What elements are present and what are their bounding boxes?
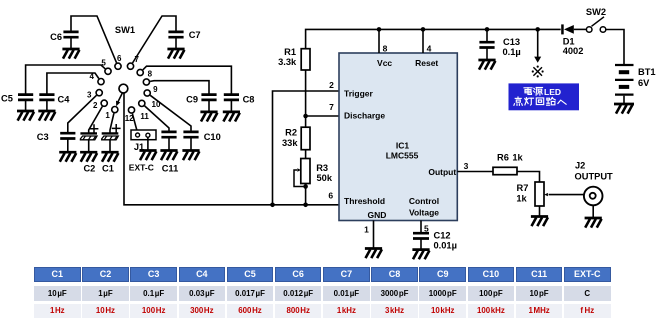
svg-text:C2: C2: [83, 164, 95, 174]
svg-text:3.3k: 3.3k: [278, 57, 297, 67]
svg-text:R3: R3: [316, 163, 328, 173]
svg-text:3: 3: [464, 161, 469, 171]
svg-text:1: 1: [105, 111, 110, 120]
svg-text:8: 8: [148, 70, 153, 79]
svg-text:Discharge: Discharge: [344, 110, 385, 120]
svg-text:IC1: IC1: [396, 141, 410, 151]
svg-text:1k: 1k: [516, 194, 527, 204]
svg-text:C5: C5: [1, 94, 13, 104]
svg-text:C9: C9: [186, 95, 198, 105]
svg-text:7: 7: [329, 102, 334, 112]
svg-text:9: 9: [153, 85, 158, 94]
svg-text:C13: C13: [503, 37, 520, 47]
svg-text:7: 7: [134, 55, 139, 64]
svg-text:C1: C1: [102, 164, 114, 174]
svg-text:C7: C7: [189, 30, 201, 40]
svg-text:LMC555: LMC555: [386, 151, 419, 161]
svg-text:C11: C11: [162, 164, 179, 174]
svg-text:R1: R1: [284, 47, 296, 57]
svg-text:6: 6: [117, 54, 122, 63]
svg-text:Trigger: Trigger: [344, 88, 374, 98]
svg-text:4002: 4002: [563, 46, 584, 56]
svg-text:6: 6: [328, 190, 333, 200]
svg-text:C4: C4: [58, 95, 71, 105]
svg-text:0.1µ: 0.1µ: [503, 47, 521, 57]
svg-text:Vcc: Vcc: [377, 58, 392, 68]
svg-text:3: 3: [87, 90, 92, 99]
svg-text:C12: C12: [434, 231, 451, 241]
svg-text:11: 11: [140, 112, 149, 121]
svg-text:1k: 1k: [512, 152, 523, 162]
svg-text:Threshold: Threshold: [344, 196, 385, 206]
svg-text:1: 1: [364, 225, 369, 235]
svg-text:BT1: BT1: [638, 67, 656, 77]
svg-text:2: 2: [329, 80, 334, 90]
svg-text:12: 12: [125, 114, 134, 123]
svg-text:2: 2: [93, 101, 98, 110]
svg-text:R7: R7: [517, 183, 529, 193]
svg-text:8: 8: [383, 43, 388, 53]
svg-text:6V: 6V: [638, 78, 650, 88]
svg-text:C8: C8: [243, 95, 255, 105]
svg-text:0.01µ: 0.01µ: [434, 241, 457, 251]
svg-text:R2: R2: [285, 127, 297, 137]
svg-text:J1: J1: [134, 142, 144, 152]
svg-text:50k: 50k: [317, 173, 333, 183]
svg-text:LED: LED: [544, 87, 561, 97]
svg-text:R6: R6: [497, 152, 509, 162]
svg-text:33k: 33k: [282, 138, 298, 148]
svg-text:D1: D1: [563, 37, 575, 47]
svg-text:EXT-C: EXT-C: [129, 163, 154, 173]
svg-text:C10: C10: [204, 132, 221, 142]
svg-text:4: 4: [89, 72, 94, 81]
svg-text:SW2: SW2: [586, 7, 606, 17]
svg-text:J2: J2: [575, 160, 585, 170]
svg-text:C6: C6: [50, 32, 62, 42]
svg-text:4: 4: [427, 43, 432, 53]
svg-text:Reset: Reset: [415, 58, 438, 68]
svg-text:SW1: SW1: [115, 25, 135, 35]
svg-text:OUTPUT: OUTPUT: [575, 171, 614, 181]
svg-text:Control: Control: [409, 196, 439, 206]
svg-text:5: 5: [424, 224, 429, 234]
svg-text:10: 10: [152, 100, 161, 109]
svg-text:Voltage: Voltage: [409, 208, 439, 218]
svg-text:C3: C3: [37, 132, 49, 142]
svg-text:Output: Output: [428, 167, 456, 177]
svg-text:5: 5: [101, 58, 106, 67]
svg-text:GND: GND: [368, 210, 387, 220]
